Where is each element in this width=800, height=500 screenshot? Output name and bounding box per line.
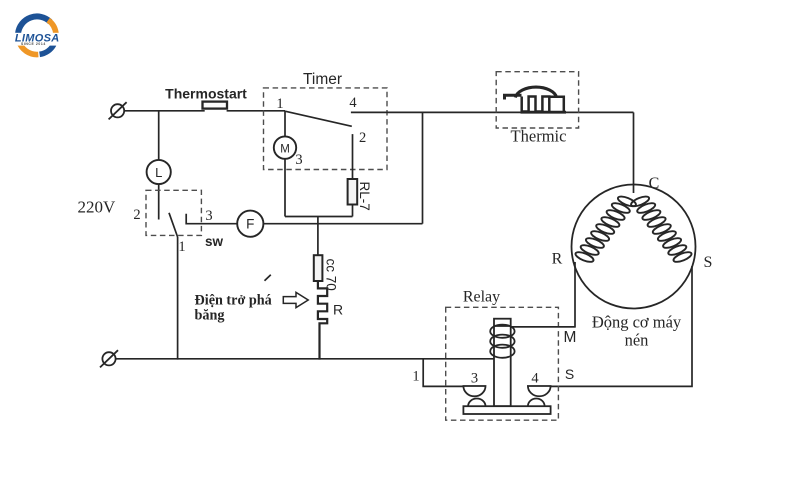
fuse circle F — [237, 211, 263, 237]
relay coil column — [494, 319, 511, 407]
wire relay coil to M — [511, 326, 575, 328]
timer motor M — [284, 111, 286, 137]
thermostat (Thermostart) — [203, 102, 228, 109]
svg-text:1: 1 — [412, 368, 419, 384]
logo LIMOSA — [5, 16, 69, 54]
wire motor S down and to contact 4 — [551, 266, 692, 386]
Thermic dashed box — [496, 72, 578, 128]
svg-text:Thermostart: Thermostart — [165, 86, 247, 102]
wire relay 1 drop — [423, 359, 463, 387]
wire lamp to switch contact 2 — [158, 184, 160, 219]
svg-text:SINCE 2014: SINCE 2014 — [21, 42, 46, 46]
resistor RL-7 — [348, 179, 358, 205]
svg-text:L: L — [155, 165, 162, 180]
wire top rail left — [124, 110, 205, 112]
svg-text:cc 70: cc 70 — [324, 259, 339, 291]
wire switch 1 down to bottom rail — [177, 237, 179, 360]
svg-text:2: 2 — [359, 130, 366, 146]
wire node 2 down — [352, 134, 354, 179]
motor winding S — [630, 195, 693, 264]
relay contact 3 dome — [463, 386, 485, 396]
wire M down — [284, 159, 286, 217]
wire F to riser — [263, 223, 422, 225]
svg-text:Relay: Relay — [463, 288, 500, 305]
wire riser to top rail — [422, 112, 424, 223]
svg-text:4: 4 — [349, 95, 357, 111]
svg-text:M: M — [280, 143, 290, 155]
plunger bump right — [528, 399, 545, 407]
Timer dashed box — [264, 88, 388, 170]
switch SW dashed box — [146, 190, 201, 235]
plunger bump left — [468, 399, 485, 407]
wire CC70 drop — [317, 217, 319, 256]
svg-text:2: 2 — [133, 207, 140, 223]
relay plunger base — [463, 406, 550, 414]
phase symbol bottom-left — [100, 350, 118, 367]
motor circle — [572, 185, 696, 309]
svg-text:3: 3 — [471, 371, 478, 387]
svg-text:S: S — [704, 254, 713, 271]
wire timer bottom rail — [285, 216, 353, 218]
timer switch arm — [285, 111, 352, 126]
resistor R meander — [318, 281, 327, 360]
wire motor C drop — [633, 112, 635, 193]
svg-text:Động cơ máy: Động cơ máy — [592, 313, 682, 332]
svg-text:S: S — [565, 366, 574, 382]
lamp L — [147, 160, 171, 184]
svg-text:nén: nén — [625, 331, 649, 350]
switch contact 3 stub — [186, 214, 237, 224]
svg-text:F: F — [246, 217, 254, 232]
svg-text:R: R — [333, 302, 343, 318]
wire top rail to timer node 1 — [227, 110, 285, 112]
block arrow — [283, 292, 308, 307]
wire lamp drop — [158, 111, 160, 160]
svg-text:4: 4 — [531, 371, 539, 387]
wire timer node 4 rail — [351, 111, 634, 113]
svg-text:M: M — [564, 329, 577, 346]
small tick mark — [265, 275, 271, 281]
motor winding R — [574, 195, 637, 264]
wire RL-7 to bottom — [352, 205, 354, 217]
relay contact 4 dome — [528, 386, 551, 396]
fuse CC 70 — [314, 255, 323, 281]
svg-text:Thermic: Thermic — [511, 126, 567, 145]
phase symbol top-left — [109, 102, 127, 119]
svg-text:RL-7: RL-7 — [357, 182, 372, 211]
svg-text:220V: 220V — [78, 198, 117, 217]
wire bottom rail — [116, 358, 494, 360]
thermic overload protector — [505, 87, 567, 112]
svg-text:1: 1 — [276, 96, 283, 112]
svg-text:1: 1 — [178, 239, 185, 255]
svg-text:sw: sw — [205, 234, 224, 249]
svg-text:Điện trở phá: Điện trở phá — [195, 293, 272, 309]
svg-text:3: 3 — [295, 152, 302, 168]
svg-text:R: R — [552, 251, 563, 268]
svg-text:Timer: Timer — [303, 71, 342, 88]
switch blade — [169, 213, 178, 237]
relay coil loops — [490, 325, 514, 358]
Relay dashed box — [446, 307, 559, 420]
svg-text:3: 3 — [205, 208, 212, 224]
svg-text:băng: băng — [195, 308, 225, 324]
wire motor R to relay coil (M) — [511, 262, 575, 327]
